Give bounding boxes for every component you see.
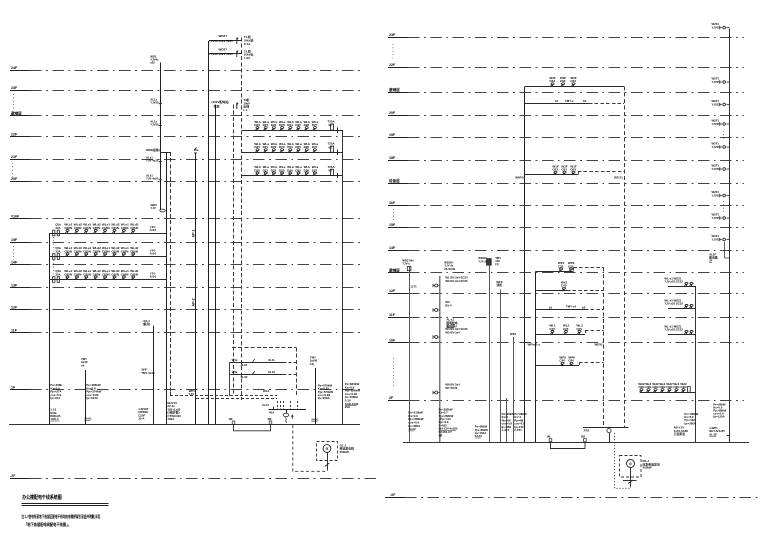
svg-text:G: G: [326, 447, 329, 451]
floor line L2 (避难层): [10, 115, 30, 117]
wire: upper cluster collector x=342.4: [342, 130, 344, 424]
svg-text:箱(暗装): 箱(暗装): [445, 324, 456, 328]
svg-text:WE-01: WE-01: [614, 176, 623, 180]
breaker on riser 439 at y=285.5: [435, 284, 438, 287]
ellipsis 15F-14F: [13, 246, 15, 260]
title double underline: [21, 503, 108, 505]
svg-text:1M: 1M: [547, 434, 552, 438]
svg-text:22F: 22F: [11, 132, 18, 136]
svg-text:消防: 消防: [495, 283, 502, 287]
svg-text:#16F: #16F: [11, 214, 20, 218]
floor line R0 (23F): [388, 37, 408, 39]
svg-text:2AA2: 2AA2: [475, 434, 483, 438]
floor line L6 (#16F): [10, 218, 30, 220]
svg-text:YJV25: YJV25: [712, 122, 721, 126]
svg-text:XL41: XL41: [262, 403, 269, 407]
floor line R13 (10F): [388, 342, 408, 344]
svg-text:20F: 20F: [389, 111, 396, 115]
svg-text:XL11: XL11: [268, 358, 275, 362]
breaker on riser 439 at y=310.0: [435, 309, 438, 312]
svg-text:2M: 2M: [581, 434, 586, 438]
wire: riser x=315.2: [315, 368, 317, 424]
left cluster row 1 busbar: [49, 233, 166, 235]
floor line R5 (18F): [388, 160, 408, 162]
svg-text:1LT1: 1LT1: [410, 285, 417, 289]
row 1 end breaker: [331, 124, 334, 130]
top branch 2: [209, 53, 242, 55]
floor line R14 (2F): [388, 400, 408, 402]
svg-text:1F: 1F: [11, 385, 16, 389]
left cluster row 3 busbar: [49, 279, 166, 281]
top box line 2 y=103.5: [525, 103, 589, 105]
svg-text:11F: 11F: [11, 328, 18, 332]
svg-text:YJV25: YJV25: [712, 145, 721, 149]
svg-text:40A: 40A: [269, 411, 275, 415]
wire: riser x=160.3 upper: [160, 63, 162, 211]
row 3 end isolators: [53, 277, 55, 283]
isolating slash: [325, 463, 330, 466]
mid group y=174.8: [525, 174, 578, 176]
floor line L10 (12F): [10, 309, 30, 311]
dashed box top: [232, 347, 296, 349]
svg-text:32A: 32A: [55, 226, 60, 230]
svg-text:YJV-x25 SC32: YJV-x25 SC32: [664, 328, 683, 332]
left cluster row 2 busbar: [49, 256, 166, 258]
svg-text:AP-1: AP-1: [192, 229, 196, 237]
svg-text:AL-2F: AL-2F: [709, 432, 717, 436]
svg-text:b1: b1: [549, 305, 553, 309]
meter ellipse below comb: [283, 413, 289, 416]
svg-text:2F: 2F: [709, 259, 713, 263]
symbol pothead 1: [236, 38, 238, 44]
svg-text:4x16: 4x16: [150, 251, 157, 255]
top box horizontal y=86.3: [525, 86, 624, 88]
svg-text:TMY-x4: TMY-x4: [566, 305, 577, 309]
svg-text:23F: 23F: [389, 33, 396, 37]
svg-text:L:2A: L:2A: [244, 56, 251, 60]
row 2 end isolators: [53, 254, 55, 260]
riser AP x=195.5 with top breaker: [195, 156, 197, 424]
floor line R11 (12F): [388, 293, 408, 295]
svg-text:TMY-x: TMY-x: [565, 99, 574, 103]
svg-text:Wx: Wx: [194, 148, 199, 152]
svg-text:YJV25: YJV25: [712, 237, 721, 241]
svg-text:63: 63: [329, 123, 333, 127]
svg-text:-2F: -2F: [10, 474, 16, 478]
wire: stub x=85 (TMY busbar): [85, 370, 87, 424]
row 2 end breaker: [331, 146, 334, 152]
breaker at top of riser 489: [487, 259, 492, 266]
svg-text:YJV25: YJV25: [712, 193, 721, 197]
svg-text:注:1.#变电所至地下各层区配电干线均由电缆桥架引至竖井明敷: 注:1.#变电所至地下各层区配电干线均由电缆桥架引至竖井明敷,详见: [21, 513, 100, 519]
wire: far-right riser x=729.3: [729, 29, 731, 442]
svg-text:YJV-x25 SC32: YJV-x25 SC32: [664, 280, 683, 284]
svg-text:YJY-25: YJY-25: [478, 259, 488, 263]
svg-text:400kW: 400kW: [643, 466, 652, 470]
svg-text:WAP01: WAP01: [515, 175, 524, 179]
svg-text:AP-2: AP-2: [192, 298, 196, 306]
bus tie loop (right): [551, 442, 586, 449]
wire: riser x=500.4: [500, 290, 502, 443]
row 1 end isolators: [53, 230, 55, 236]
floor line R6 (设备层): [388, 183, 408, 185]
svg-text:(10kV配电站: (10kV配电站: [212, 99, 229, 104]
svg-text:YJV22-10kV 3x95: YJV22-10kV 3x95: [209, 52, 233, 56]
dotted row link 2: [53, 260, 55, 276]
svg-text:避难层: 避难层: [388, 87, 400, 92]
wire: riser x=489: [489, 266, 491, 442]
wire: riser x=506.3 (short): [506, 398, 508, 442]
svg-text:18F: 18F: [389, 156, 396, 160]
floor line R3 (20F): [388, 115, 408, 117]
svg-text:YJV-x25 SC32: YJV-x25 SC32: [664, 302, 683, 306]
svg-text:P:1A: P:1A: [244, 42, 251, 46]
floor line R1 (22F): [388, 67, 408, 69]
dotted repeat mark 2: [723, 201, 725, 212]
mini riser branch y=334: [668, 334, 695, 336]
svg-text:YJV25: YJV25: [712, 216, 721, 220]
branch WL y=362.2: [229, 362, 283, 364]
svg-text:x4): x4): [310, 362, 314, 366]
svg-text:11F: 11F: [389, 313, 396, 317]
wire: left cluster collector x=49: [49, 233, 51, 424]
small arrow mark: [291, 415, 293, 419]
ellipsis between 23F and below: [13, 94, 15, 111]
floor line R7 (16F): [388, 205, 408, 207]
svg-text:XL12: XL12: [268, 370, 275, 374]
wire: center box left edge x=535.5: [535, 272, 537, 443]
svg-text:XL01: XL01: [241, 363, 248, 367]
svg-text:(4): (4): [495, 262, 498, 266]
branch at y=152 feeding x=166/x=170: [160, 152, 170, 154]
svg-text:1M: 1M: [229, 417, 234, 421]
dotted repeat mark 1: [723, 131, 725, 141]
breaker on riser 439 at y=392.5: [435, 391, 438, 394]
floor line L11 (11F): [10, 332, 30, 334]
generator G2: [627, 460, 635, 468]
center box branch y=309.7 (bus): [536, 309, 586, 311]
wire: main riser WL1 x=208.8: [208, 41, 210, 424]
svg-text:W14: W14: [263, 389, 269, 393]
dashed vertical x=603.5: [603, 268, 605, 428]
floor line R10 (避难层): [388, 272, 408, 274]
svg-text:YJV-4x25: YJV-4x25: [146, 158, 159, 162]
svg-text:2F: 2F: [389, 396, 394, 400]
floor line L1 (23F): [10, 90, 30, 92]
svg-text:4x16: 4x16: [150, 228, 157, 232]
svg-text:引自柴发: 引自柴发: [674, 432, 685, 436]
svg-text:15F: 15F: [389, 223, 396, 227]
busbar of tap comb: [268, 409, 306, 411]
wire: riser x=439.4: [439, 276, 441, 442]
svg-text:YJV25: YJV25: [712, 80, 721, 84]
svg-text:25-SC32: 25-SC32: [444, 267, 455, 271]
svg-text:避难层: 避难层: [10, 110, 22, 115]
wire: dashed riser x=170: [170, 152, 172, 392]
floor line L4 (21F): [10, 159, 30, 161]
dashed vertical x=624: [624, 86, 626, 427]
svg-text:Ijs=614: Ijs=614: [50, 396, 60, 400]
svg-text:「地下各层配电间配电干线图」。: 「地下各层配电间配电干线图」。: [24, 521, 71, 527]
svg-text:Ijs=614A: Ijs=614A: [86, 396, 99, 400]
top branch 1 (10kV cable in): [209, 40, 242, 42]
floor line R4 (19F): [388, 137, 408, 139]
svg-text:YJV25: YJV25: [150, 100, 159, 104]
dashed feeders into tap box: [170, 392, 172, 395]
ellipsis R 23F-22F: [392, 44, 394, 60]
svg-text:2AA1: 2AA1: [311, 417, 319, 421]
svg-text:b2: b2: [583, 99, 587, 103]
svg-text:W5 BV-3x4: W5 BV-3x4: [445, 331, 460, 335]
svg-text:12F: 12F: [11, 305, 18, 309]
svg-text:10F: 10F: [389, 338, 396, 342]
svg-text:WD2(接续): WD2(接续): [146, 148, 160, 152]
dotted path to generator (right): [615, 433, 631, 488]
svg-text:引来: 引来: [214, 104, 221, 109]
svg-text:Ijs=930A: Ijs=930A: [318, 396, 331, 400]
generator box (left): [317, 442, 338, 461]
svg-text:1B: 1B: [439, 433, 443, 437]
svg-text:设备层: 设备层: [389, 178, 400, 183]
svg-text:10-A: 10-A: [138, 417, 145, 421]
svg-text:22F: 22F: [389, 63, 396, 67]
upper-right cluster row 3 busbar: [242, 175, 342, 177]
ellipsis R 16F-15F: [393, 209, 395, 221]
floor line L3 (22F): [10, 136, 30, 138]
ellipsis 21F-20F: [12, 163, 14, 178]
center box branch y=334: [536, 334, 586, 336]
svg-text:-6F: -6F: [390, 493, 396, 497]
svg-text:63: 63: [329, 145, 333, 149]
branch WL y=374.4: [229, 374, 283, 376]
wire: mini riser x=695.3: [695, 286, 697, 442]
dotted row link 1: [53, 237, 55, 252]
svg-text:24F: 24F: [11, 66, 18, 70]
floor line L12 (1F): [10, 389, 30, 391]
svg-text:23F: 23F: [11, 86, 18, 90]
bottom basement dash-dot line (right): [385, 497, 405, 499]
svg-text:YJV25: YJV25: [712, 102, 721, 106]
svg-text:L-1: L-1: [243, 108, 248, 112]
svg-text:WE02: WE02: [595, 343, 603, 347]
bottom-right single row cluster: [640, 392, 695, 394]
bottom basement dash-dot line (left): [10, 478, 30, 480]
generator G1: [323, 445, 331, 453]
svg-text:14F: 14F: [389, 246, 396, 250]
row 3 end breaker: [331, 169, 334, 175]
svg-text:(备用): (备用): [143, 321, 151, 326]
wire: riser x=513.4: [513, 337, 515, 442]
svg-text:W2 BV-3x4 SC20: W2 BV-3x4 SC20: [445, 279, 468, 283]
squiggle to bus: [285, 417, 288, 423]
center box branch y=290.8: [536, 290, 568, 292]
svg-text:W2x: W2x: [232, 370, 238, 374]
svg-text:kVA: kVA: [345, 405, 351, 409]
svg-text:1-AT1: 1-AT1: [502, 428, 510, 432]
svg-text:BV-4: BV-4: [445, 304, 452, 308]
svg-text:63: 63: [329, 169, 333, 173]
breaker on riser 439 at y=337.0: [435, 336, 438, 339]
svg-text:b2: b2: [582, 305, 586, 309]
svg-text:1AA1: 1AA1: [84, 417, 92, 421]
svg-text:WX2: WX2: [510, 332, 517, 336]
svg-text:20F: 20F: [11, 177, 18, 181]
wire: main riser x=524.8: [524, 86, 526, 442]
stub x=153 with HL label: [153, 326, 155, 425]
svg-text:32A: 32A: [55, 272, 60, 276]
svg-text:YJV22-10kV 3x95: YJV22-10kV 3x95: [209, 39, 233, 43]
svg-text:办公楼配电干线系统图: 办公楼配电干线系统图: [22, 493, 62, 501]
tap comb (dashed ticks): [277, 401, 279, 410]
ellipsis R 10F-2F: [393, 358, 395, 386]
svg-text:14F: 14F: [11, 260, 18, 264]
wire: riser x=409: [409, 266, 411, 442]
bottom busbar solid line (right diagram): [403, 442, 749, 444]
svg-text:WPxx1-x: WPxx1-x: [528, 342, 541, 346]
svg-text:4x16: 4x16: [150, 274, 157, 278]
svg-text:避难层: 避难层: [388, 267, 400, 272]
floor line L5 (20F): [10, 181, 30, 183]
svg-text:12F: 12F: [389, 289, 396, 293]
svg-text:x25: x25: [150, 61, 155, 65]
svg-text:10kA: 10kA: [167, 417, 175, 421]
symbol pothead 2: [236, 51, 238, 57]
svg-text:13F: 13F: [11, 283, 18, 287]
mini riser branch y=308: [668, 308, 695, 310]
svg-text:W1x: W1x: [232, 358, 238, 362]
floor line L8 (14F): [10, 264, 30, 266]
wire: x=229.4 connector: [229, 362, 231, 396]
svg-text:YJV: YJV: [151, 206, 156, 210]
svg-text:Ijs=150A: Ijs=150A: [713, 414, 725, 418]
wire: dashed riser x=241.3: [241, 38, 243, 401]
svg-text:10/0.4: 10/0.4: [50, 417, 58, 421]
svg-text:WDZ?: WDZ?: [219, 34, 228, 38]
svg-text:YJV-4x25: YJV-4x25: [146, 176, 159, 180]
svg-text:Ijs=280A: Ijs=280A: [684, 421, 696, 425]
wire: riser x=166: [166, 152, 168, 424]
svg-text:250kW: 250kW: [340, 450, 349, 454]
svg-text:XL02: XL02: [241, 375, 248, 379]
floor line L9 (13F): [10, 287, 30, 289]
floor line R12 (11F): [388, 317, 408, 319]
floor line L7 (15F): [10, 242, 30, 244]
svg-text:G: G: [629, 462, 632, 466]
svg-text:2M: 2M: [268, 417, 273, 421]
mini riser branch y=286: [668, 286, 695, 288]
svg-text:YJV25: YJV25: [712, 167, 721, 171]
svg-text:b1: b1: [555, 99, 559, 103]
svg-text:YJV25: YJV25: [150, 122, 159, 126]
generator box (right): [620, 456, 642, 478]
upper-right cluster row 2 busbar: [242, 152, 342, 154]
svg-text:YJV-x: YJV-x: [402, 262, 410, 266]
dashed box right edge: [296, 348, 298, 398]
svg-text:2-AT1: 2-AT1: [514, 428, 522, 432]
wire: dashed riser x=233.8: [233, 105, 235, 397]
upper-right cluster row 1 busbar: [242, 130, 342, 132]
ATS horizontal: [583, 427, 629, 429]
wire: riser x=215.9: [215, 105, 217, 425]
floor line L0 (24F): [10, 70, 30, 72]
svg-text:32A: 32A: [55, 249, 60, 253]
dashed feed to generator (left): [293, 425, 327, 471]
center box branch y=271.5: [536, 271, 574, 273]
svg-text:YJV25: YJV25: [712, 25, 721, 29]
center box branch y=365.8: [536, 365, 580, 367]
svg-text:x4: x4: [81, 363, 85, 367]
svg-text:WDZ?: WDZ?: [219, 47, 228, 51]
svg-text:21F: 21F: [11, 155, 18, 159]
bus tie loop (left): [234, 424, 271, 431]
floor line R9 (14F): [388, 250, 408, 252]
svg-text:16F: 16F: [389, 201, 396, 205]
svg-text:15F: 15F: [11, 238, 18, 242]
svg-text:ATS: ATS: [584, 429, 590, 433]
svg-text:W7 SC20: W7 SC20: [445, 386, 457, 390]
floor line R2 (避难层): [388, 92, 408, 94]
svg-text:1AA2: 1AA2: [408, 427, 416, 431]
bottom busbar solid line (left diagram): [9, 424, 360, 426]
svg-text:TMY-3x40: TMY-3x40: [141, 371, 155, 375]
floor line R8 (15F): [388, 227, 408, 229]
svg-text:19F: 19F: [389, 133, 396, 137]
